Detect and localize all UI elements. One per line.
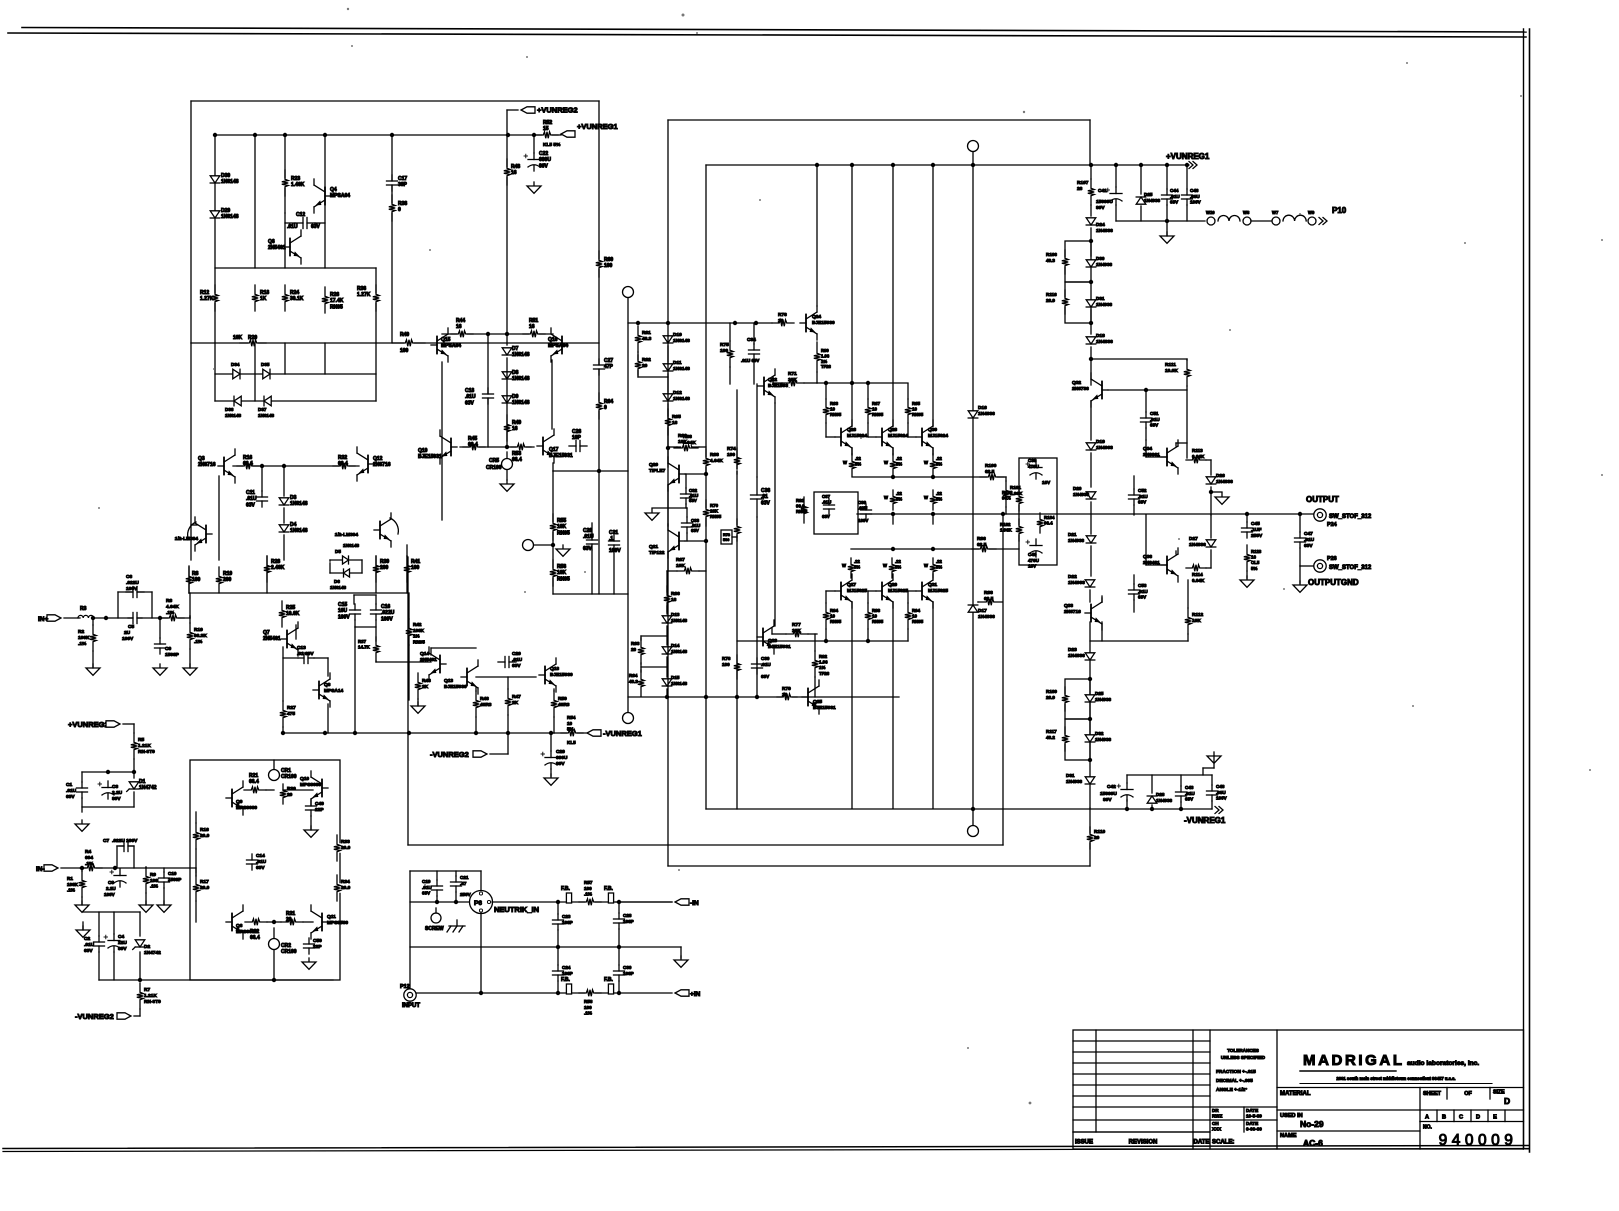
svg-text:1N6148: 1N6148 bbox=[221, 179, 239, 185]
wire bbox=[480, 871, 482, 891]
svg-text:10K: 10K bbox=[676, 563, 685, 569]
resistor R32 bbox=[339, 462, 349, 470]
svg-text:R118: R118 bbox=[1251, 549, 1262, 554]
svg-text:R51: R51 bbox=[529, 318, 538, 324]
svg-text:C8: C8 bbox=[108, 880, 114, 885]
svg-text:63V: 63V bbox=[691, 528, 699, 533]
svg-text:R7: R7 bbox=[144, 987, 150, 993]
resistor R79 bbox=[782, 693, 792, 701]
wire bbox=[613, 551, 615, 594]
svg-text:RN-3T0: RN-3T0 bbox=[138, 749, 155, 755]
svg-text:MPSA64: MPSA64 bbox=[441, 343, 461, 349]
svg-text:R4: R4 bbox=[85, 849, 91, 855]
svg-text:C49: C49 bbox=[315, 801, 324, 807]
svg-text:80V: 80V bbox=[112, 796, 121, 802]
svg-text:C19: C19 bbox=[422, 879, 431, 884]
capacitor C9 bbox=[155, 644, 166, 648]
junction bbox=[113, 866, 117, 870]
wire bbox=[354, 627, 356, 733]
svg-text:15: 15 bbox=[543, 126, 549, 132]
svg-text:16: 16 bbox=[671, 597, 677, 603]
svg-text:0.04K: 0.04K bbox=[1192, 578, 1205, 583]
svg-text:R9: R9 bbox=[150, 872, 156, 877]
junction bbox=[617, 900, 621, 904]
svg-text:R63: R63 bbox=[830, 401, 839, 406]
svg-text:10P: 10P bbox=[572, 435, 582, 441]
speck bbox=[682, 14, 685, 17]
resistor R24 bbox=[281, 293, 289, 303]
wire bbox=[283, 535, 285, 560]
junction bbox=[666, 446, 670, 450]
svg-text:1%: 1% bbox=[821, 359, 827, 364]
resistor R113 bbox=[1191, 456, 1201, 464]
wire bbox=[1187, 634, 1189, 641]
svg-text:.022U: .022U bbox=[126, 580, 139, 586]
wire bbox=[215, 373, 376, 375]
diode D25 bbox=[1085, 695, 1095, 702]
svg-text:10-5-89: 10-5-89 bbox=[1246, 1114, 1262, 1119]
wire bbox=[557, 902, 559, 914]
junction bbox=[891, 547, 895, 551]
svg-text:1N4936: 1N4936 bbox=[1216, 479, 1233, 485]
resistor R4 bbox=[86, 864, 96, 872]
wire bbox=[266, 556, 268, 593]
capacitor C46 bbox=[1182, 195, 1193, 199]
svg-text:R61: R61 bbox=[642, 330, 651, 336]
junction bbox=[931, 163, 935, 167]
resistor .22 emitter bbox=[848, 460, 856, 470]
capacitor C29 bbox=[545, 758, 557, 765]
speck bbox=[1229, 329, 1231, 331]
resistor R33 bbox=[333, 843, 341, 853]
wire bbox=[214, 135, 216, 343]
svg-text:10K: 10K bbox=[557, 570, 567, 576]
resistor R61 bbox=[634, 334, 642, 344]
wire bbox=[867, 629, 869, 641]
wire bbox=[163, 868, 165, 872]
svg-text:16V: 16V bbox=[1028, 564, 1037, 569]
wire bbox=[1299, 566, 1301, 583]
ground bbox=[1246, 576, 1248, 580]
svg-text:2K: 2K bbox=[422, 684, 429, 690]
svg-text:UNLESS SPECIFIED: UNLESS SPECIFIED bbox=[1221, 1055, 1266, 1060]
wire bbox=[354, 620, 356, 627]
svg-text:100: 100 bbox=[411, 565, 420, 571]
junction bbox=[1089, 239, 1093, 243]
junction bbox=[754, 321, 758, 325]
ground bbox=[1213, 752, 1215, 756]
wire rail bbox=[851, 548, 1019, 550]
svg-text:.01U: .01U bbox=[1185, 791, 1195, 796]
svg-text:F.B.: F.B. bbox=[604, 977, 614, 983]
svg-text:D27: D27 bbox=[1189, 536, 1198, 542]
svg-text:CR100: CR100 bbox=[486, 465, 502, 471]
transistor Q6b bbox=[226, 921, 232, 923]
svg-text:200: 200 bbox=[380, 565, 389, 571]
svg-text:R20: R20 bbox=[248, 335, 257, 341]
svg-text:5%: 5% bbox=[936, 461, 942, 466]
wire bbox=[284, 343, 286, 374]
wire bbox=[133, 724, 135, 733]
wire bbox=[680, 947, 682, 958]
wire bbox=[1187, 580, 1189, 608]
wire bbox=[1210, 460, 1212, 475]
svg-text:.01U: .01U bbox=[761, 662, 771, 667]
title block bbox=[1073, 1030, 1524, 1149]
svg-text:1N4936: 1N4936 bbox=[978, 411, 995, 417]
wire bbox=[686, 533, 688, 541]
diode D30b bbox=[1086, 260, 1096, 267]
wire bbox=[303, 921, 313, 923]
resistor R26 bbox=[321, 295, 329, 305]
ferrite bead bbox=[566, 893, 571, 903]
wire box3 left bbox=[705, 165, 707, 809]
junction bbox=[971, 163, 975, 167]
resistor R19 bbox=[215, 575, 223, 585]
resistor R64b bbox=[595, 401, 603, 411]
resistor R50 bbox=[550, 699, 558, 709]
svg-text:1N6148: 1N6148 bbox=[225, 413, 242, 418]
wire bbox=[867, 423, 869, 437]
wire bbox=[667, 485, 669, 526]
svg-text:DATE: DATE bbox=[1246, 1108, 1258, 1113]
svg-text:OUTPUTGND: OUTPUTGND bbox=[1308, 578, 1359, 587]
svg-text:+VUNREG2: +VUNREG2 bbox=[537, 106, 578, 115]
svg-text:1N6148: 1N6148 bbox=[290, 528, 308, 534]
junction bbox=[556, 991, 560, 995]
svg-text:W9: W9 bbox=[1308, 210, 1315, 215]
svg-text:10K: 10K bbox=[557, 524, 567, 530]
svg-text:C5: C5 bbox=[128, 624, 134, 630]
resistor R80 bbox=[813, 352, 821, 362]
wire bbox=[972, 809, 974, 825]
svg-text:R65: R65 bbox=[672, 414, 681, 420]
svg-text:2.49K: 2.49K bbox=[271, 565, 285, 571]
wire bbox=[554, 732, 587, 734]
wire bbox=[506, 470, 508, 480]
wire rail bbox=[99, 979, 333, 981]
svg-text:W: W bbox=[843, 460, 847, 465]
wire bbox=[729, 323, 731, 341]
svg-text:R33: R33 bbox=[341, 839, 350, 845]
svg-text:26: 26 bbox=[1077, 186, 1083, 192]
svg-text:96.4: 96.4 bbox=[1044, 521, 1053, 526]
wire bbox=[410, 870, 481, 872]
wire bbox=[825, 629, 827, 641]
junction bbox=[1144, 388, 1148, 392]
svg-text:R78: R78 bbox=[722, 656, 731, 661]
junction bbox=[704, 695, 708, 699]
svg-text:D30: D30 bbox=[221, 173, 230, 179]
wire bbox=[1151, 775, 1153, 793]
wire bbox=[375, 343, 377, 401]
speck bbox=[351, 45, 353, 47]
capacitor C2 bbox=[94, 942, 105, 946]
capacitor C1 bbox=[77, 788, 88, 792]
wire bbox=[215, 400, 376, 402]
svg-text:R109: R109 bbox=[1046, 689, 1057, 694]
svg-text:100: 100 bbox=[400, 348, 409, 354]
svg-text:C34: C34 bbox=[747, 337, 756, 343]
resistor R44 bbox=[457, 330, 467, 338]
svg-text:BJE15031: BJE15031 bbox=[813, 705, 836, 711]
wire bbox=[507, 109, 518, 111]
capacitor C30 bbox=[752, 664, 763, 668]
wire bbox=[64, 617, 80, 619]
svg-text:RN05: RN05 bbox=[912, 412, 924, 417]
wire box2 left bbox=[667, 120, 669, 866]
junction bbox=[390, 133, 394, 137]
svg-text:100K: 100K bbox=[67, 882, 79, 887]
svg-text:-IN: -IN bbox=[690, 900, 699, 907]
capacitor C38 bbox=[1030, 468, 1042, 475]
speck bbox=[736, 469, 738, 471]
junction bbox=[282, 464, 286, 468]
capacitor C16 bbox=[371, 610, 382, 614]
wire rail OUTPUT bbox=[857, 513, 1313, 515]
svg-text:46.3: 46.3 bbox=[1046, 258, 1055, 263]
svg-text:F.B.: F.B. bbox=[561, 977, 571, 983]
svg-text:46.3: 46.3 bbox=[629, 679, 638, 684]
resistor R37 bbox=[372, 644, 380, 654]
wire bbox=[81, 897, 83, 905]
wire column bbox=[816, 165, 818, 306]
junction bbox=[1089, 357, 1093, 361]
svg-text:C1: C1 bbox=[66, 782, 72, 788]
speck bbox=[1589, 769, 1591, 771]
wire rail bbox=[1116, 220, 1205, 222]
wire bbox=[1246, 515, 1248, 522]
speck bbox=[213, 368, 215, 370]
wire bbox=[1211, 775, 1213, 785]
svg-text:100V: 100V bbox=[609, 548, 621, 554]
resistor R45 bbox=[469, 443, 479, 451]
wire bbox=[490, 753, 508, 755]
diode D34 bbox=[233, 369, 240, 379]
wire bbox=[637, 352, 639, 377]
svg-text:Q34: Q34 bbox=[1143, 446, 1152, 452]
svg-text:5%: 5% bbox=[936, 564, 942, 569]
ground bbox=[506, 480, 508, 484]
svg-text:R64: R64 bbox=[629, 673, 638, 678]
svg-text:16V: 16V bbox=[1042, 480, 1051, 485]
capacitor C42 bbox=[1121, 790, 1133, 797]
resistor R114 bbox=[1191, 564, 1201, 572]
wire bbox=[1090, 310, 1092, 334]
wire bbox=[189, 616, 191, 623]
svg-text:RN05: RN05 bbox=[872, 412, 884, 417]
wire bbox=[652, 507, 687, 509]
svg-text:1/2-LM394: 1/2-LM394 bbox=[175, 536, 199, 542]
wire bbox=[233, 465, 359, 467]
svg-text:R84: R84 bbox=[830, 608, 839, 613]
wire bbox=[1133, 575, 1135, 584]
capacitor C6 bbox=[133, 587, 137, 598]
transistor Q32 bbox=[1102, 389, 1108, 391]
wire bbox=[825, 384, 827, 399]
junction bbox=[551, 543, 555, 547]
terminal bbox=[1308, 217, 1316, 225]
resistor R55 bbox=[549, 522, 557, 532]
svg-text:4.64K: 4.64K bbox=[166, 604, 179, 610]
svg-text:.22: .22 bbox=[896, 491, 902, 496]
svg-text:DATE: DATE bbox=[1246, 1121, 1258, 1126]
ground bbox=[310, 826, 312, 830]
svg-text:63V: 63V bbox=[246, 502, 256, 508]
wire bbox=[1133, 600, 1135, 612]
resistor R12 bbox=[211, 293, 219, 303]
svg-text:R19: R19 bbox=[223, 571, 232, 577]
wire bbox=[361, 560, 363, 573]
junction bbox=[850, 381, 854, 385]
diode D23 bbox=[1085, 653, 1095, 660]
svg-text:R17: R17 bbox=[200, 879, 209, 885]
speck bbox=[424, 884, 426, 886]
svg-text:90.9: 90.9 bbox=[796, 504, 805, 509]
svg-text:CR1: CR1 bbox=[281, 768, 291, 774]
svg-text:100: 100 bbox=[604, 263, 613, 269]
junction bbox=[1139, 163, 1143, 167]
svg-text:0.04K: 0.04K bbox=[1192, 454, 1205, 459]
junction bbox=[1001, 512, 1005, 516]
svg-text:R22: R22 bbox=[250, 929, 259, 935]
svg-text:R66: R66 bbox=[678, 433, 687, 439]
svg-text:RWZ: RWZ bbox=[1212, 1114, 1223, 1119]
junction bbox=[132, 770, 136, 774]
junction bbox=[1150, 807, 1154, 811]
resistor R22 bbox=[251, 918, 261, 926]
svg-text:10: 10 bbox=[912, 407, 917, 412]
svg-text:R58: R58 bbox=[584, 999, 593, 1004]
svg-text:P26: P26 bbox=[1327, 556, 1337, 562]
svg-text:2N6716: 2N6716 bbox=[198, 462, 216, 468]
wire column bbox=[892, 165, 894, 426]
wire bbox=[61, 867, 196, 869]
capacitor C50 bbox=[304, 944, 315, 948]
svg-text:63V: 63V bbox=[1150, 423, 1159, 428]
wire bbox=[1211, 491, 1222, 493]
junction bbox=[1298, 512, 1302, 516]
svg-text:R98: R98 bbox=[984, 590, 993, 596]
ground bbox=[189, 664, 191, 668]
svg-text:14.7K: 14.7K bbox=[358, 645, 371, 650]
svg-text:1.27K: 1.27K bbox=[357, 292, 371, 298]
wire bbox=[487, 334, 489, 447]
wire bbox=[667, 346, 669, 362]
svg-text:+VUNREG2: +VUNREG2 bbox=[68, 720, 109, 729]
svg-text:1500P: 1500P bbox=[168, 877, 181, 882]
svg-text:63V: 63V bbox=[1170, 200, 1179, 205]
wire bbox=[1090, 502, 1092, 534]
svg-text:D4: D4 bbox=[290, 522, 297, 528]
wire bbox=[191, 524, 197, 526]
speck bbox=[1178, 538, 1180, 540]
junction bbox=[824, 639, 828, 643]
svg-text:63V: 63V bbox=[1138, 595, 1147, 600]
transistor Q34 bbox=[1161, 456, 1167, 458]
svg-text:CR100: CR100 bbox=[281, 774, 297, 780]
svg-text:R79: R79 bbox=[782, 686, 791, 692]
svg-text:1N4936: 1N4936 bbox=[978, 614, 995, 620]
svg-text:OUTPUT: OUTPUT bbox=[1306, 495, 1339, 504]
svg-text:+VUNREG1: +VUNREG1 bbox=[577, 122, 618, 131]
wire bbox=[410, 901, 470, 903]
svg-text:CH: CH bbox=[1212, 1121, 1219, 1126]
wire bbox=[375, 268, 377, 343]
svg-text:R104: R104 bbox=[1044, 515, 1055, 520]
resistor R25 bbox=[278, 609, 286, 619]
wire bbox=[261, 466, 263, 491]
wire bbox=[133, 759, 135, 778]
svg-text:2N6716: 2N6716 bbox=[373, 462, 391, 468]
svg-text:C28: C28 bbox=[623, 913, 632, 918]
svg-text:.1%: .1% bbox=[85, 861, 94, 867]
junction bbox=[138, 978, 142, 982]
wire bbox=[98, 952, 100, 980]
svg-text:.68U: .68U bbox=[858, 506, 867, 511]
svg-text:D3: D3 bbox=[290, 495, 297, 501]
capacitor C44 bbox=[1162, 195, 1173, 199]
wire bbox=[116, 846, 118, 868]
resistor R78 bbox=[733, 662, 741, 672]
svg-text:Q9: Q9 bbox=[236, 799, 243, 805]
svg-text:D10: D10 bbox=[673, 332, 682, 338]
wire bbox=[324, 343, 326, 374]
wire bbox=[552, 463, 554, 471]
resistor R63 bbox=[637, 646, 645, 656]
svg-text:100V: 100V bbox=[1216, 796, 1228, 801]
border top rule bbox=[22, 28, 1526, 33]
svg-text:Q14: Q14 bbox=[420, 651, 429, 657]
svg-text:R111: R111 bbox=[1165, 362, 1176, 368]
svg-text:R34: R34 bbox=[341, 879, 350, 885]
svg-text:R67: R67 bbox=[676, 557, 685, 563]
capacitor C48 bbox=[1207, 791, 1218, 795]
svg-text:63V: 63V bbox=[689, 498, 697, 503]
capacitor C28b bbox=[614, 919, 625, 923]
svg-text:63V: 63V bbox=[422, 891, 431, 896]
capacitor C24 bbox=[553, 971, 564, 975]
junction bbox=[866, 381, 870, 385]
svg-text:R116: R116 bbox=[1046, 292, 1057, 297]
transistor Q36 bbox=[1161, 564, 1167, 566]
svg-text:MPSA64: MPSA64 bbox=[548, 343, 568, 349]
wire bbox=[1145, 390, 1147, 412]
svg-text:B: B bbox=[1442, 1115, 1446, 1121]
transistor Q16 bbox=[562, 344, 568, 346]
junction bbox=[1114, 163, 1118, 167]
wire bbox=[151, 592, 153, 618]
svg-text:KL5 5%: KL5 5% bbox=[543, 142, 561, 148]
svg-text:R63: R63 bbox=[631, 641, 640, 646]
svg-text:80V: 80V bbox=[1096, 205, 1105, 211]
junction bbox=[1088, 758, 1092, 762]
svg-text:D18: D18 bbox=[1096, 333, 1105, 339]
svg-text:W: W bbox=[884, 460, 888, 465]
junction bbox=[1165, 163, 1169, 167]
wire bbox=[408, 593, 410, 619]
resistor R65 bbox=[664, 417, 672, 427]
wire bbox=[81, 868, 83, 871]
wire bbox=[1002, 515, 1004, 845]
svg-text:W: W bbox=[884, 495, 888, 500]
svg-text:-VUNREG1: -VUNREG1 bbox=[1184, 816, 1226, 825]
svg-text:D37: D37 bbox=[258, 407, 267, 412]
svg-text:1.96: 1.96 bbox=[819, 660, 828, 665]
wire bbox=[1186, 205, 1188, 221]
svg-text:D2: D2 bbox=[144, 944, 150, 950]
ground bbox=[533, 182, 535, 186]
